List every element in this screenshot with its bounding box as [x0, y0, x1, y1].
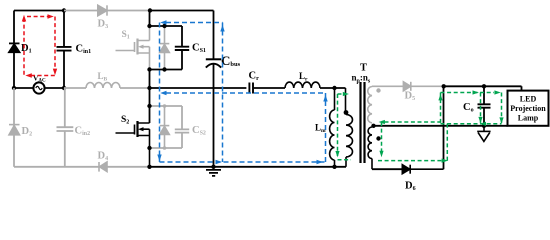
secondary bottom polarity dot [376, 136, 380, 140]
svg-text:S2: S2 [121, 115, 129, 126]
node: left mid junction [12, 86, 16, 90]
capacitor Co [478, 86, 491, 126]
wire mid-left [14, 87, 64, 89]
green loop primary arrows [335, 92, 349, 157]
transistor S2 (MOSFET, active black) [116, 121, 150, 167]
node: Co top junction [482, 84, 486, 88]
svg-text:D6: D6 [405, 181, 416, 191]
node: S2 source on bottom wire [147, 165, 151, 169]
svg-text:S1: S1 [122, 30, 130, 41]
node: Lm top junction [332, 86, 336, 90]
wire top-left [14, 10, 64, 12]
wire output riser [443, 86, 445, 169]
node: center tap [371, 124, 375, 128]
inductor LB [86, 83, 120, 89]
capacitor Cbus (polarized) [206, 11, 221, 167]
svg-text:Lm: Lm [315, 123, 326, 135]
gray inactive input section [14, 11, 150, 167]
wire bottom bus [150, 166, 347, 168]
blue current loop 2 (resonant tank loop) [166, 93, 326, 162]
wire D3 top segment [64, 10, 150, 12]
wire output return [374, 125, 508, 127]
node: half-bridge midpoint [147, 86, 151, 90]
svg-text:Projection: Projection [510, 104, 546, 113]
node: Co bottom junction [482, 124, 486, 128]
wire bottom-left [14, 166, 150, 168]
diode D2 [9, 125, 20, 135]
svg-text:Cin1: Cin1 [76, 44, 92, 56]
node: S2 bottom rail [147, 146, 151, 150]
primary polarity dot [344, 110, 349, 115]
node: S2 diode bottom (gray) [163, 146, 167, 150]
svg-text:D4: D4 [98, 151, 109, 163]
node: Cin1 bottom junction [62, 86, 66, 90]
wire Lr to transformer [320, 87, 346, 89]
node: Cin1 top junction [62, 8, 66, 12]
green loop (primary transfer) [338, 94, 352, 160]
transistor S1 (MOSFET, inactive gray) [116, 26, 150, 70]
node: S1 bottom rail left [147, 67, 151, 71]
transformer T primary winding [346, 88, 353, 167]
blue current loop 1 (bus loop) [160, 23, 326, 163]
svg-text:D3: D3 [98, 19, 109, 31]
capacitor Cin1 [57, 47, 72, 51]
wire output top rail [444, 86, 522, 91]
node: D3 right junction [148, 8, 152, 12]
diode D5 (gray) [403, 82, 443, 91]
green output loop arrows [379, 90, 504, 162]
secondary top polarity dot (gray) [376, 88, 380, 92]
svg-text:LED: LED [520, 95, 537, 104]
node: S1 body diode top [162, 24, 166, 28]
wire S1 cell bottom rail [150, 69, 183, 71]
wire Cin2 branch [64, 88, 66, 167]
wire S2 cell top rail (gray) [150, 105, 183, 107]
wire D6 branch [372, 168, 402, 170]
wire left lower vertical (D2 branch) [13, 88, 15, 167]
svg-text:Cin2: Cin2 [75, 126, 91, 138]
node: Lm bottom junction [332, 165, 336, 169]
svg-text:CS2: CS2 [192, 125, 206, 137]
svg-text:Lr: Lr [299, 71, 308, 83]
diode D1 [9, 43, 20, 52]
node: rectifier output junction [442, 84, 446, 88]
svg-text:D2: D2 [22, 126, 33, 138]
svg-text:D1: D1 [21, 43, 32, 55]
wire Cr to Lr [254, 87, 285, 89]
ground (bus return) [206, 170, 221, 176]
ground (output, open triangle) [477, 126, 490, 142]
body diode of S1 [160, 26, 170, 70]
node: S2 diode top (gray) [163, 104, 167, 108]
wire top bus [150, 10, 214, 12]
wire S1 drain riser [149, 11, 151, 27]
wire left vertical (D1 branch) [13, 11, 15, 89]
wire LB segment [64, 87, 150, 89]
svg-text:Cbus: Cbus [221, 53, 241, 68]
svg-text:Cr: Cr [249, 71, 260, 83]
node: S1 body diode bottom [162, 67, 166, 71]
wire S2 cell bottom rail (gray) [150, 147, 183, 149]
blue loop arrows [157, 20, 327, 164]
transformer core [361, 82, 365, 163]
wire midpoint vertical S2 drain [149, 70, 151, 124]
svg-text:Co: Co [463, 102, 474, 114]
capacitor Cin2 [57, 127, 74, 131]
svg-text:D5: D5 [405, 91, 416, 103]
transformer secondary top winding (gray) [368, 86, 405, 123]
node: S1 top rail left [147, 24, 151, 28]
diode D4 [99, 162, 107, 172]
svg-text:LB: LB [98, 71, 108, 83]
capacitor CS2 [175, 106, 189, 148]
diode D3 [98, 5, 107, 15]
node: S2 top rail [147, 104, 151, 108]
transformer secondary bottom winding [368, 127, 372, 169]
load: LED Projection Lamp box [508, 91, 549, 126]
red current loop (Vac-D1-Cin1) [24, 17, 55, 76]
green output loop [378, 93, 502, 161]
diode D6 [402, 165, 443, 174]
svg-text:CS1: CS1 [192, 43, 206, 55]
svg-text:Lamp: Lamp [518, 114, 539, 123]
inductor Lm (magnetizing) [330, 88, 335, 167]
capacitor CS1 [175, 26, 189, 70]
capacitor Cr [249, 83, 253, 94]
AC source Vac [33, 82, 44, 93]
wire S1 cell top rail [150, 25, 183, 27]
body diode of S2 [160, 106, 170, 148]
node: Cbus bottom junction [211, 165, 215, 169]
wire midpoint to tank [150, 87, 247, 89]
inductor Lr [285, 82, 320, 88]
wire Cin1 branch [63, 11, 65, 89]
